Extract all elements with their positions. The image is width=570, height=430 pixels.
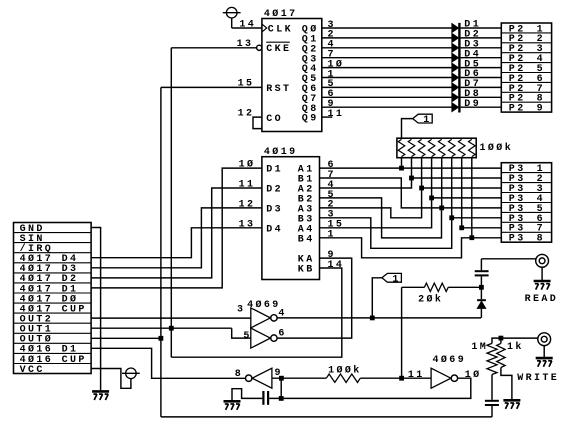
wire B3	[320, 218, 452, 249]
ground (GND pin)	[92, 390, 109, 393]
connector P3 separator	[501, 231, 551, 233]
wire OUT1 row	[91, 327, 232, 329]
resistor column 1 lead	[401, 158, 403, 168]
wire Q4 to diode	[322, 67, 452, 69]
junction WRITE node	[499, 336, 504, 341]
diode D9	[452, 103, 459, 112]
wire node to 1k	[500, 338, 502, 343]
svg-text:4Ø19: 4Ø19	[264, 146, 298, 158]
svg-text:4Ø17: 4Ø17	[264, 8, 298, 20]
wire A4	[320, 198, 432, 228]
diode D8	[452, 93, 459, 102]
wire A2	[320, 178, 502, 188]
diode D2	[452, 34, 459, 43]
svg-text:VCC: VCC	[20, 365, 45, 376]
wire diode leads	[480, 287, 482, 299]
wire RST	[161, 86, 262, 88]
connector P2 box	[501, 23, 551, 112]
resistor column 4 lead	[431, 158, 433, 198]
svg-text:8: 8	[235, 369, 243, 380]
resistor column 6 lead	[451, 158, 453, 218]
junction 20k tap	[399, 376, 404, 381]
wire P3 6	[452, 217, 502, 219]
wire A3	[320, 188, 502, 218]
wire READ jack to ground	[541, 267, 543, 281]
connector P1 separator	[14, 352, 92, 354]
wire Q1 to diode	[322, 37, 452, 39]
junction col7	[459, 225, 464, 230]
resistor column 3 lead	[421, 158, 423, 188]
junction col3	[419, 186, 424, 191]
wire gate2 output to KA	[277, 258, 352, 338]
connector circle J-CLK (top-left port)	[226, 7, 237, 18]
wire VCC	[91, 369, 131, 389]
svg-text:D1: D1	[266, 165, 283, 176]
wire Q3 to diode	[322, 57, 452, 59]
svg-text:12: 12	[239, 200, 256, 211]
svg-text:Q9: Q9	[302, 114, 319, 125]
junction READ node	[479, 285, 484, 290]
wire P3 5	[442, 207, 502, 209]
diode cathode bar (shared)	[458, 23, 460, 113]
svg-text:4Ø69: 4Ø69	[247, 299, 281, 311]
svg-text:1ØØk: 1ØØk	[480, 142, 514, 154]
diode D1	[452, 24, 459, 33]
wire OUT1 step to gate input 5	[232, 328, 251, 338]
wire 100k to gate input 11	[360, 377, 431, 379]
wire Q2 to diode	[322, 47, 452, 49]
diode D6	[452, 73, 459, 82]
svg-text:15: 15	[238, 79, 255, 90]
junction pin9 node	[279, 376, 284, 381]
connector P1 separator	[14, 322, 92, 324]
capacitor C2	[475, 270, 489, 272]
wire Q6 to diode	[322, 86, 452, 88]
ground (1k)	[503, 399, 520, 402]
junction col6	[449, 215, 454, 220]
svg-text:CO: CO	[266, 114, 283, 125]
svg-text:13: 13	[239, 219, 256, 230]
svg-text:11: 11	[239, 180, 256, 191]
wire pin9 to 100k	[272, 377, 326, 379]
wire gate1 output (net 1)	[277, 317, 481, 319]
resistor RP1 element 8	[469, 139, 476, 156]
wire 20k drop	[401, 287, 403, 378]
svg-text:11: 11	[408, 370, 425, 381]
svg-text:P2: P2	[509, 104, 526, 115]
svg-text:9: 9	[537, 104, 545, 115]
clock wedge CLK	[262, 24, 267, 31]
junction col4	[429, 196, 434, 201]
resistor column 7 lead	[461, 158, 463, 228]
resistor RP1 element 7	[458, 139, 465, 156]
resistor RP1 element 1	[398, 139, 405, 156]
resistor RP1 element 2	[408, 139, 415, 156]
wire 1k to ground	[501, 368, 512, 401]
svg-text:D3: D3	[266, 205, 283, 216]
resistor 1M	[487, 343, 497, 374]
connector P3 separator	[501, 172, 551, 174]
wire OUT0 row	[91, 337, 161, 339]
wire pin9 drop	[280, 378, 282, 398]
wire 4019 D2	[91, 188, 262, 278]
wire 4019 D3	[91, 208, 262, 268]
jack READ	[536, 254, 549, 267]
inverter U3A 3-4	[251, 308, 271, 328]
diode D3	[452, 43, 459, 52]
resistor 1k	[497, 343, 505, 367]
wire flag1 drop	[372, 278, 382, 318]
wire READ line	[481, 258, 535, 260]
connector P1 separator	[14, 292, 92, 294]
svg-text:1Ø: 1Ø	[465, 369, 482, 381]
connector P2 separator	[501, 32, 551, 34]
connector P2 separator	[501, 52, 551, 54]
wire 20k right lead	[448, 286, 481, 288]
connector P1 separator	[14, 232, 92, 234]
ground (C1)	[224, 400, 241, 403]
connector circle VCC port	[126, 368, 137, 379]
connector P2 separator	[501, 101, 551, 103]
wire RST/OUT0 vertical	[160, 87, 162, 417]
diode D4	[452, 53, 459, 62]
connector P3 separator	[501, 221, 551, 223]
resistor RP1 element 3	[418, 139, 425, 156]
svg-text:CLK: CLK	[268, 24, 293, 35]
wire 4016 D1 row	[91, 348, 245, 378]
wire C1 to ground	[232, 389, 262, 402]
wire P3 8	[472, 237, 502, 239]
connector P3 separator	[501, 211, 551, 213]
inverted pin bubble CKE	[257, 45, 262, 50]
inverter U3B 5-6	[251, 328, 271, 348]
wire 1M to C3	[491, 375, 493, 400]
wire 4019 D4	[91, 228, 262, 258]
wire C3 to OUT0 line	[491, 406, 493, 417]
junction col8	[469, 235, 474, 240]
wire Q5 to diode	[322, 77, 452, 79]
connector P1 separator	[14, 282, 92, 284]
wire C2 leads	[480, 259, 482, 270]
connector P2 separator	[501, 42, 551, 44]
svg-text:1: 1	[328, 230, 336, 241]
svg-text:1: 1	[423, 115, 431, 126]
svg-text:11: 11	[328, 109, 345, 120]
resistor column 2 lead	[411, 158, 413, 178]
diode D5	[452, 63, 459, 72]
wire CLK stem	[231, 18, 233, 28]
wire A1 to P3 1	[320, 167, 502, 169]
junction col1	[399, 166, 404, 171]
wire B4	[320, 238, 472, 258]
IC U2 4019 box	[262, 157, 320, 280]
svg-text:B4: B4	[298, 234, 315, 245]
junction net1 flag drop	[370, 316, 375, 321]
resistor RP1 element 6	[448, 139, 455, 156]
connector P1 separator	[14, 252, 92, 254]
connector P3 separator	[501, 192, 551, 194]
svg-text:4Ø69: 4Ø69	[433, 354, 467, 366]
svg-text:3: 3	[237, 304, 245, 315]
wire OUT0 bottom line	[161, 416, 492, 418]
wire flag to pack	[402, 119, 413, 139]
junction OUT1-CKE	[169, 326, 174, 331]
connector P2 separator	[501, 62, 551, 64]
wire WRITE node	[501, 337, 538, 339]
jack WRITE	[538, 333, 551, 346]
wire P3 7	[462, 227, 502, 229]
capacitor C3	[485, 400, 499, 402]
wire Q0 to diode	[322, 27, 452, 29]
wire WRITE jack to ground	[543, 346, 545, 358]
svg-text:1k: 1k	[507, 341, 524, 353]
wire Q8 to diode	[322, 106, 452, 108]
resistor pack RP1 box	[397, 138, 476, 158]
svg-text:WRITE: WRITE	[517, 373, 559, 384]
svg-text:KB: KB	[298, 265, 315, 276]
svg-text:READ: READ	[525, 294, 559, 305]
wire node to 1M	[492, 338, 501, 343]
connector P1 box	[14, 223, 92, 374]
resistor 100k R2	[326, 374, 360, 382]
connector P1 separator	[14, 332, 92, 334]
wire 4019 D1	[91, 168, 262, 288]
diode D10	[477, 301, 485, 308]
connector P1 separator	[14, 302, 92, 304]
connector P1 separator	[14, 262, 92, 264]
svg-text:RST: RST	[266, 84, 291, 95]
svg-text:5: 5	[243, 331, 251, 342]
svg-text:1Ø: 1Ø	[239, 159, 256, 171]
wire GND to ground	[91, 228, 101, 392]
svg-text:12: 12	[238, 108, 255, 119]
wire B2	[320, 198, 442, 238]
connector P3 separator	[501, 182, 551, 184]
connector P3 separator	[501, 202, 551, 204]
connector P2 separator	[501, 91, 551, 93]
junction OUT0-RST	[159, 336, 164, 341]
wire gate output 10 loop	[269, 378, 471, 398]
wire OUT2 row to inverter	[91, 317, 251, 319]
connector P2 separator	[501, 81, 551, 83]
resistor 20k R3	[424, 283, 448, 291]
inverter U3C 11-10	[431, 368, 451, 388]
junction cap node	[279, 396, 284, 401]
connector P3 box	[501, 163, 551, 243]
net flag 1 (to resistor pack)	[413, 114, 433, 123]
svg-text:P3: P3	[509, 234, 526, 245]
junction col5	[439, 206, 444, 211]
svg-text:8: 8	[537, 234, 545, 245]
resistor column 5 lead	[441, 158, 443, 208]
IC U1 4017 box	[262, 19, 322, 132]
net flag 1 (at gate output)	[382, 273, 402, 282]
resistor RP1 element 4	[428, 139, 435, 156]
ground (READ)	[534, 280, 551, 283]
resistor column 8 lead	[471, 158, 473, 238]
wire CKE/OUT1 vertical	[170, 48, 172, 357]
junction col2	[409, 176, 414, 181]
svg-text:D2: D2	[266, 185, 283, 196]
svg-text:14: 14	[239, 20, 256, 31]
resistor RP1 element 5	[438, 139, 445, 156]
capacitor C1	[262, 391, 264, 405]
svg-text:D4: D4	[266, 224, 283, 235]
wire 20k left lead	[402, 286, 425, 288]
wire KB	[171, 268, 341, 357]
connector P1 separator	[14, 312, 92, 314]
wire CKE	[171, 47, 256, 49]
svg-text:CKE: CKE	[266, 44, 291, 55]
wire CLK	[232, 27, 262, 29]
connector P1 separator	[14, 242, 92, 244]
ground (WRITE jack)	[536, 357, 553, 360]
connector P1 separator	[14, 363, 92, 365]
diode D7	[452, 83, 459, 92]
svg-text:2Øk: 2Øk	[418, 293, 443, 305]
wire Q7 to diode	[322, 96, 452, 98]
wire P3 4	[432, 197, 502, 199]
wire B1	[320, 178, 442, 208]
svg-text:13: 13	[237, 39, 254, 50]
connector P2 separator	[501, 72, 551, 74]
wire Q9 stub	[322, 116, 333, 118]
svg-text:1: 1	[392, 274, 400, 285]
connector P1 separator	[14, 342, 92, 344]
inverter U3D 9-8 (facing left)	[252, 368, 272, 388]
connector P1 separator	[14, 272, 92, 274]
svg-text:D9: D9	[464, 99, 481, 110]
wire CO hook	[253, 117, 262, 129]
svg-text:1ØØk: 1ØØk	[328, 364, 362, 376]
svg-text:1M: 1M	[471, 342, 488, 353]
